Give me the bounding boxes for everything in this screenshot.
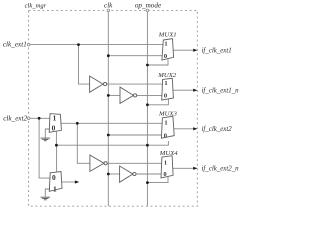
svg-text:1: 1 (53, 113, 57, 122)
wire clk branch to MUX1 input 0 (108, 55, 162, 57)
ground B (41, 196, 50, 198)
svg-text:0: 0 (164, 132, 167, 139)
wire clk_ext1 to MUX1 input 1 (29, 44, 164, 46)
junction clk_ext2 / drop to mux B (38, 117, 41, 120)
svg-text:clk_mgr: clk_mgr (25, 3, 47, 10)
wire small mux A output to MUX3 input 1 (61, 122, 162, 124)
junction clk / MUX3 in0 (107, 134, 110, 137)
dashed module boundary clk_mgr (29, 10, 198, 206)
inverter C bubble (104, 162, 107, 165)
svg-text:if_clk_ext2_n: if_clk_ext2_n (202, 166, 240, 173)
wire MUX3 output (174, 128, 195, 130)
wire clk branch to MUX3 input 0 (108, 134, 162, 136)
junction select bus / mux A-B selects (55, 144, 58, 147)
wire clk_ext1 drop to inverter A (79, 45, 90, 85)
arrow if_clk_ext1 (193, 49, 197, 52)
wire MUX4 output (173, 167, 195, 169)
junction op_mode / MUX4 select (146, 181, 149, 184)
wire clk_ext2 to small mux A input 1 (29, 117, 51, 119)
inverter A bubble (104, 83, 107, 86)
wire MUX4 select from op_mode (147, 177, 168, 183)
wire small mux A input 0 to ground A (45, 129, 50, 138)
arrow if_clk_ext2_n (193, 167, 197, 170)
svg-text:MUX1: MUX1 (158, 31, 177, 38)
ground A (41, 137, 50, 139)
port pin clk_ext2 (27, 117, 30, 120)
junction clk_ext1 / inverter A (77, 43, 80, 46)
wire clk vertical (107, 10, 109, 206)
wire op_mode vertical (146, 10, 148, 206)
svg-text:1: 1 (164, 80, 167, 87)
svg-text:if_clk_ext1_n: if_clk_ext1_n (202, 88, 240, 95)
svg-text:clk_ext1: clk_ext1 (3, 41, 27, 49)
arrow if_clk_ext2 (193, 127, 197, 130)
junction clk / inverter B (107, 94, 110, 97)
svg-text:1: 1 (53, 185, 57, 194)
svg-text:1: 1 (164, 119, 167, 126)
wire small mux B output stub (62, 181, 76, 183)
wire MUX1 select from op_mode (147, 59, 168, 65)
mux MUX2 body (162, 78, 174, 100)
junction op_mode / MUX2 select (146, 103, 149, 106)
wire MUX1 output (173, 49, 194, 51)
arrow mux B output (75, 180, 79, 183)
inverter A triangle (90, 76, 103, 92)
wire MUX2 output (173, 89, 194, 91)
mux MUX4 body (161, 156, 173, 178)
svg-text:0: 0 (52, 124, 56, 133)
wire select bus small muxes to op_mode and MUX3 (56, 132, 168, 146)
arrow if_clk_ext1_n (193, 89, 197, 92)
svg-text:MUX3: MUX3 (158, 111, 177, 118)
wire clk_ext2 drop to small mux B input 0 (39, 118, 50, 178)
svg-text:1: 1 (164, 41, 167, 48)
wire inverter A output to MUX2 input 1 (107, 83, 163, 85)
wire branch down to inverter C (77, 123, 90, 163)
mux MUX1 body (162, 39, 174, 60)
svg-text:clk_ext2: clk_ext2 (3, 114, 27, 122)
wire clk branch to inverter D (108, 173, 119, 175)
svg-text:0: 0 (164, 53, 167, 60)
svg-text:MUX2: MUX2 (157, 72, 176, 79)
wire clk branch to inverter B (108, 94, 120, 96)
port pin clk (107, 9, 110, 12)
mux small A body (49, 114, 61, 133)
svg-text:1: 1 (164, 159, 167, 166)
svg-text:0: 0 (163, 171, 166, 178)
wire inverter B output to MUX2 input 0 (137, 94, 162, 96)
mux MUX3 body (161, 116, 174, 138)
junction op_mode / select bus (146, 144, 149, 147)
junction mux A output / inverter C branch (76, 122, 79, 125)
wire small mux B input 1 to ground B (45, 189, 50, 197)
port pin op_mode (146, 9, 149, 12)
inverter B triangle (120, 87, 134, 103)
svg-text:MUX4: MUX4 (159, 150, 178, 157)
inverter D triangle (120, 166, 133, 182)
wire small mux B select drop (56, 145, 58, 172)
wire inverter C output to MUX4 input 1 (107, 162, 161, 164)
inverter B bubble (134, 94, 137, 97)
inverter D bubble (133, 172, 136, 175)
mux small B body (49, 172, 62, 192)
junction clk / inverter D (107, 173, 110, 176)
port pin clk_ext1 (27, 43, 30, 46)
svg-text:0: 0 (164, 93, 167, 100)
svg-text:0: 0 (52, 173, 56, 182)
svg-text:if_clk_ext1: if_clk_ext1 (202, 47, 232, 54)
wire MUX2 select from op_mode (147, 99, 168, 105)
svg-text:if_clk_ext2: if_clk_ext2 (202, 126, 233, 133)
junction clk / MUX1 in0 (107, 54, 110, 57)
inverter C triangle (90, 155, 104, 171)
junction op_mode / MUX1 select (146, 64, 149, 67)
svg-text:clk: clk (104, 1, 113, 9)
svg-text:op_mode: op_mode (135, 1, 162, 9)
wire inverter D output to MUX4 input 0 (136, 173, 161, 175)
